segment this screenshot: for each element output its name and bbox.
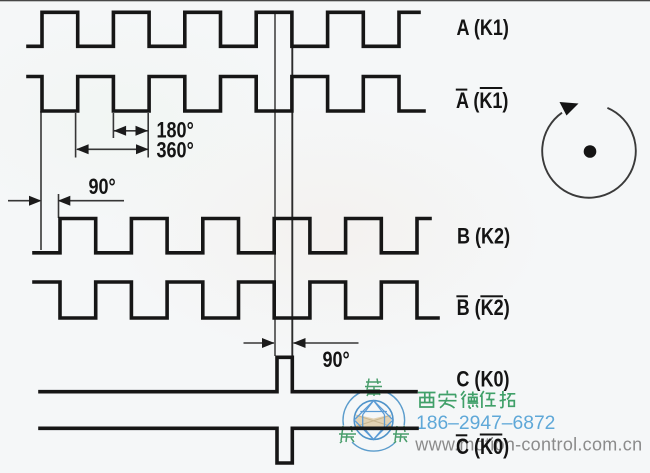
bar over K1 of A-bar [480,87,503,89]
logo outer arcs [343,392,405,451]
circle arc [542,108,636,198]
svg-text:www.motion-control.com.cn: www.motion-control.com.cn [414,435,642,455]
svg-text:186–2947–6872: 186–2947–6872 [416,413,555,434]
360 arrow shaft [77,148,148,150]
ext line 360-left (x=75.6) [75,113,77,158]
arrowhead on circle [560,102,579,116]
center dot [584,145,597,158]
bar over K0 of C-bar [480,434,503,436]
svg-text:C (K0): C (K0) [456,368,509,392]
char 安 [439,391,457,409]
logo inner circle [354,401,393,440]
char 伍 [480,391,496,408]
svg-text:A (K1): A (K1) [457,17,509,41]
top border line [0,0,650,1]
svg-text:360°: 360° [157,139,194,163]
green chinese text 西安德伍拓 [418,391,515,409]
90 C arrow shafts [244,342,275,344]
logo green char bottom-right [393,426,409,443]
90 top right head (points left) [58,196,71,206]
svg-text:B (K2): B (K2) [457,225,510,249]
bar over B of B-bar [456,295,468,297]
overbars [456,87,503,436]
signal B-bar [34,282,438,318]
90 C left head [262,338,275,348]
signal C-bar [40,428,417,463]
signal A [28,12,419,46]
logo green char bottom-left [339,426,356,443]
ext line 180-left (x=113.4) [112,113,114,138]
globe wireframe [354,401,393,440]
svg-text:B (K2): B (K2) [457,296,510,320]
logo green char top [365,379,382,397]
svg-text:C (K0): C (K0) [456,435,509,459]
signal C [40,357,416,391]
ext line 360-right (x=148.2) [147,113,149,158]
90 C right head [293,338,306,348]
ext line 90-left (x=41) [40,111,42,250]
90 top arrow shafts [8,200,40,202]
char 西 [418,393,436,408]
bar over K2 of B-bar [480,295,503,297]
svg-text:90°: 90° [89,175,116,199]
signal A-bar [28,77,424,112]
180 right head [136,126,149,136]
arrowheads [29,126,306,348]
svg-text:A (K1): A (K1) [456,89,508,113]
bar over C of C-bar [456,434,468,436]
ref line left [274,12,276,356]
char 拓 [500,391,516,408]
book (tan band) [356,415,391,430]
char 德 [461,391,478,408]
180 arrow shaft [114,130,148,132]
360 right head [136,144,149,154]
ref line right [291,12,293,356]
bar over A of A-bar [456,89,468,91]
360 left head [76,144,89,154]
90 top left head (points right) [29,196,42,206]
signal B [34,219,430,253]
180 left head [114,126,127,136]
ext line 90-right (x=58.5) [58,194,60,218]
svg-text:90°: 90° [323,348,350,372]
